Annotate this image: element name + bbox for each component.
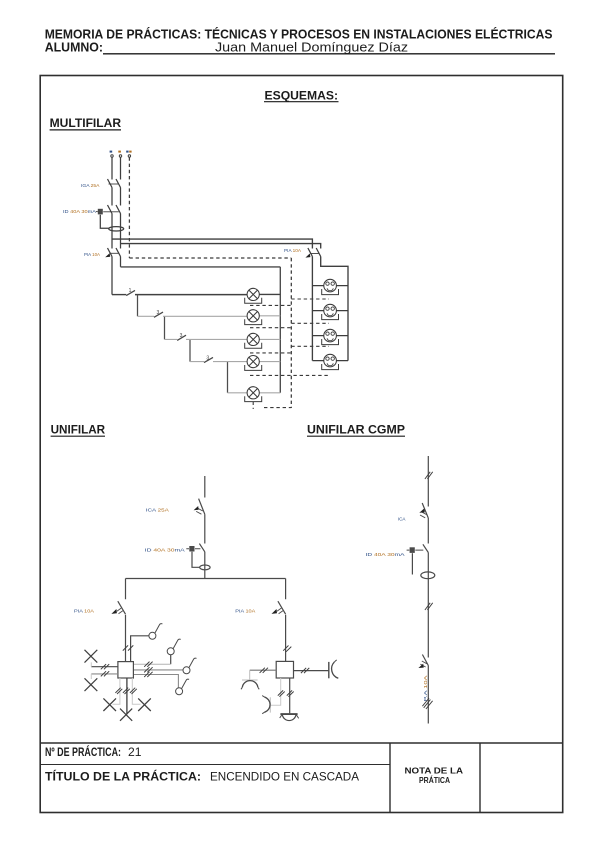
- svg-text:1: 1: [129, 288, 132, 294]
- svg-text:ID 40A 30mA: ID 40A 30mA: [63, 209, 96, 214]
- svg-text:ID 40A 30mA: ID 40A 30mA: [145, 547, 186, 552]
- svg-text:TÍTULO DE LA PRÁCTICA:: TÍTULO DE LA PRÁCTICA:: [45, 769, 201, 784]
- svg-text:ID 40A 30mA: ID 40A 30mA: [366, 552, 406, 557]
- svg-text:MULTIFILAR: MULTIFILAR: [50, 116, 122, 130]
- svg-text:PIA 10A: PIA 10A: [235, 608, 255, 613]
- svg-text:PRÁTICA: PRÁTICA: [419, 776, 450, 785]
- svg-text:21: 21: [128, 747, 142, 759]
- svg-text:P.A 10A: P.A 10A: [423, 674, 428, 701]
- svg-text:ESQUEMAS:: ESQUEMAS:: [265, 89, 339, 103]
- svg-text:ICA 25A: ICA 25A: [146, 507, 170, 513]
- svg-text:Nº DE PRÁCTICA:: Nº DE PRÁCTICA:: [45, 744, 121, 759]
- svg-text:ALUMNO:: ALUMNO:: [45, 41, 103, 55]
- svg-text:PIA 10A: PIA 10A: [84, 252, 100, 257]
- svg-text:3: 3: [180, 333, 183, 339]
- svg-text:IGA 25A: IGA 25A: [81, 183, 100, 188]
- svg-text:MEMORIA DE PRÁCTICAS: TÉCNICAS: MEMORIA DE PRÁCTICAS: TÉCNICAS Y PROCESO…: [45, 27, 553, 42]
- svg-text:ICA: ICA: [398, 517, 407, 522]
- svg-text:UNIFILAR: UNIFILAR: [51, 423, 106, 437]
- svg-text:3: 3: [157, 310, 160, 316]
- svg-text:ENCENDIDO EN CASCADA: ENCENDIDO EN CASCADA: [210, 772, 359, 784]
- svg-text:3: 3: [206, 355, 209, 361]
- svg-text:UNIFILAR CGMP: UNIFILAR CGMP: [307, 423, 405, 437]
- svg-text:Juan Manuel Domínguez Díaz: Juan Manuel Domínguez Díaz: [215, 41, 408, 55]
- svg-text:PIA 10A: PIA 10A: [284, 248, 301, 253]
- svg-text:NOTA DE LA: NOTA DE LA: [405, 767, 464, 776]
- svg-text:PIA 10A: PIA 10A: [74, 608, 94, 613]
